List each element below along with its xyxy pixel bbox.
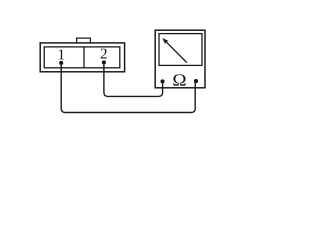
wire terminal 2 to meter left terminal bbox=[104, 63, 163, 96]
divider between section 1 and section 2 bbox=[83, 47, 85, 68]
meter display window bbox=[159, 34, 202, 66]
component under test outer case bbox=[40, 43, 124, 72]
svg-text:Ω: Ω bbox=[172, 71, 186, 90]
tab on top of case bbox=[77, 38, 91, 43]
meter left terminal bbox=[160, 79, 164, 83]
pin 1 label bbox=[58, 47, 66, 63]
ohmmeter M1 case bbox=[155, 30, 205, 88]
ohm symbol label bbox=[172, 71, 186, 90]
meter needle bbox=[162, 38, 187, 63]
svg-text:2: 2 bbox=[100, 46, 108, 62]
terminal 2 bbox=[102, 60, 106, 64]
pin 2 label bbox=[100, 46, 108, 62]
wire terminal 1 to meter right terminal bbox=[61, 63, 195, 112]
meter right terminal bbox=[194, 79, 198, 83]
component under test inner body bbox=[44, 47, 120, 68]
terminal 1 bbox=[59, 61, 63, 65]
